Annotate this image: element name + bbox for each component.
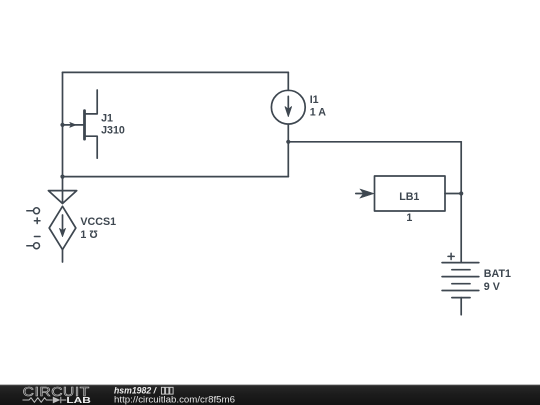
junction dot at J1 gate bbox=[60, 123, 64, 127]
BAT1 bottom lead bbox=[460, 298, 462, 315]
wire I1 top lead bbox=[287, 72, 289, 90]
dependent source VCCS1 (diamond) bbox=[49, 206, 76, 262]
junction dot bottom-left node bbox=[60, 175, 64, 179]
svg-text:LB1: LB1 bbox=[399, 191, 419, 203]
triangle (down arrow symbol above VCCS1) bbox=[48, 191, 76, 204]
wire right vertical down to battery bbox=[460, 142, 462, 263]
junction dot under I1 bbox=[286, 140, 290, 144]
block LB1 bbox=[375, 176, 446, 211]
BAT1 plus sign bbox=[448, 253, 454, 259]
wire LB1 right lead bbox=[445, 193, 461, 195]
svg-text:1 A: 1 A bbox=[310, 107, 327, 119]
wire left vertical bbox=[62, 72, 64, 203]
svg-text:J310: J310 bbox=[101, 125, 125, 137]
LB1 input arrow bbox=[356, 189, 374, 198]
svg-text:VCCS1: VCCS1 bbox=[80, 216, 116, 228]
VCCS1 bottom stub wire bbox=[62, 250, 64, 262]
CircuitLab logo resistor zigzag and diode bbox=[23, 397, 67, 403]
svg-text:LAB: LAB bbox=[66, 395, 91, 405]
svg-text:J1: J1 bbox=[101, 113, 113, 125]
VCCS1 control terminal - (open circle) bbox=[27, 237, 40, 249]
svg-text:I1: I1 bbox=[310, 94, 319, 106]
wire top (node between J1 drain rail and I1 top) bbox=[63, 71, 289, 73]
svg-text:http://circuitlab.com/cr8f5m6: http://circuitlab.com/cr8f5m6 bbox=[114, 394, 235, 404]
transistor J1 (JFET J310) bbox=[63, 90, 98, 158]
svg-text:1: 1 bbox=[406, 212, 412, 224]
svg-text:1 Ʊ: 1 Ʊ bbox=[80, 229, 98, 241]
svg-text:BAT1: BAT1 bbox=[484, 268, 511, 280]
wire I1 bottom lead down to bottom rail bbox=[287, 124, 289, 177]
current source I1 bbox=[271, 90, 305, 124]
footer tofu boxes bbox=[161, 387, 173, 394]
svg-text:9 V: 9 V bbox=[484, 281, 501, 293]
battery BAT1 bbox=[442, 253, 479, 314]
wire from I1 bottom junction to right rail bbox=[288, 141, 461, 143]
junction dot right rail at LB1 bbox=[459, 191, 463, 195]
wire bottom horizontal bbox=[63, 176, 289, 178]
footer bar bbox=[0, 384, 540, 405]
VCCS1 control terminal + (open circle) bbox=[27, 208, 40, 224]
